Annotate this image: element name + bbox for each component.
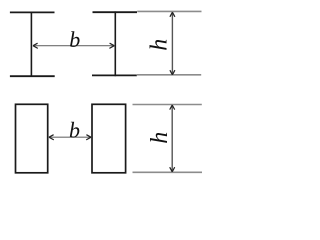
left I-beam top flange xyxy=(10,11,55,13)
right I-beam top flange xyxy=(93,11,138,13)
right I-beam web xyxy=(114,11,116,76)
left rectangle xyxy=(16,104,48,173)
arrowhead bottom of top h arrow xyxy=(170,70,175,75)
arrowhead top of bottom h arrow xyxy=(170,105,175,110)
dimension arrow b (bottom row) shaft xyxy=(49,136,91,138)
arrowhead bottom of bottom h arrow xyxy=(170,167,175,172)
arrowhead left of top b arrow xyxy=(33,43,38,48)
arrowhead top of top h arrow xyxy=(170,12,175,17)
left I-beam web xyxy=(30,12,32,77)
arrowhead right of top b arrow xyxy=(109,43,114,48)
svg-text:h: h xyxy=(147,132,173,144)
arrowhead right of bottom b arrow xyxy=(86,135,91,140)
extension line top right of bottom row xyxy=(133,104,202,106)
right rectangle xyxy=(92,104,126,173)
dimension arrow b (top row) shaft xyxy=(33,45,114,47)
extension line bottom right of top row xyxy=(137,74,201,76)
svg-text:b: b xyxy=(69,118,80,143)
left I-beam bottom flange xyxy=(10,75,55,77)
dimension arrow h (bottom row) shaft xyxy=(171,105,173,171)
extension line bottom right of bottom row xyxy=(133,171,203,173)
dimension arrow h (top row) shaft xyxy=(171,13,173,75)
svg-text:h: h xyxy=(147,39,173,51)
right I-beam bottom flange xyxy=(92,74,137,76)
extension line top right (from top flange) xyxy=(137,10,201,12)
arrowhead left of bottom b arrow xyxy=(49,135,54,140)
svg-text:b: b xyxy=(69,27,80,52)
